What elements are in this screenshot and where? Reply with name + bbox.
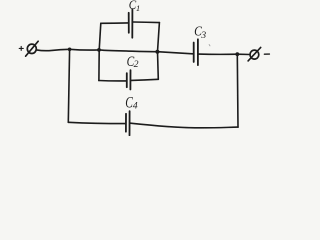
- svg-text:1: 1: [136, 3, 140, 13]
- svg-text:3: 3: [200, 30, 206, 41]
- svg-text:4: 4: [133, 100, 138, 111]
- svg-text:2: 2: [134, 59, 139, 70]
